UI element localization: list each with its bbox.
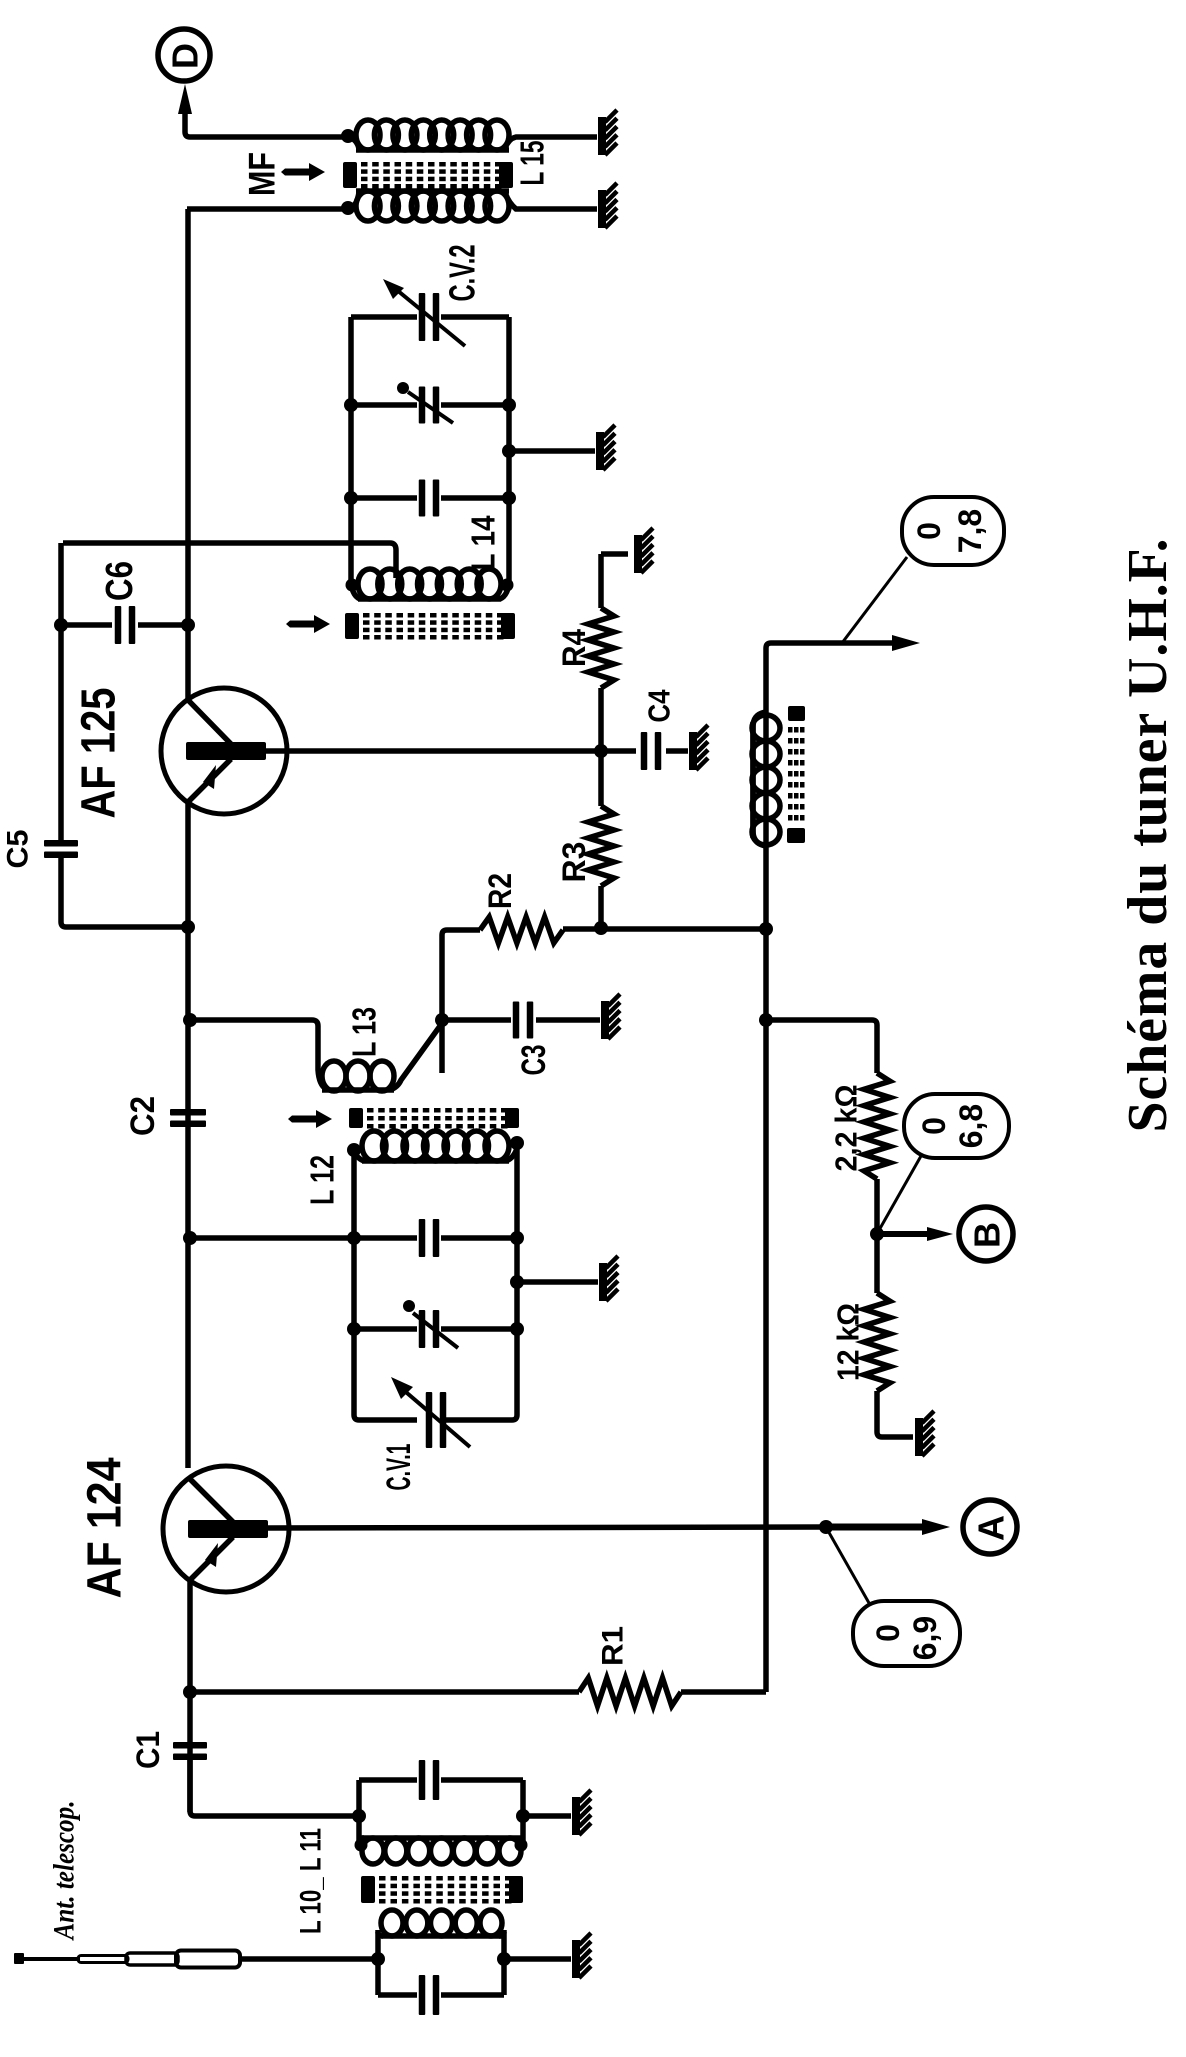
inductor L10 <box>378 1910 504 1936</box>
title <box>1117 538 1179 1133</box>
resistor R2 <box>442 917 563 1073</box>
label C.V.1 <box>380 1444 418 1491</box>
label L14 <box>465 515 502 571</box>
wire base AF124 node A line <box>268 1520 934 1534</box>
svg-text:L 15: L 15 <box>514 141 551 186</box>
transistor AF124 <box>163 1466 289 1592</box>
label C.V.2 <box>442 245 483 302</box>
label C6 <box>99 561 141 601</box>
capacitor C.V.2 <box>351 279 509 346</box>
label C2 <box>124 1096 162 1136</box>
svg-text:C2: C2 <box>124 1096 162 1136</box>
svg-text:7,8: 7,8 <box>952 509 988 553</box>
wire emitter AF124 down <box>187 1580 193 1812</box>
wire ground tap tank2 <box>510 1275 598 1289</box>
resistor 12k <box>864 1234 913 1437</box>
label R1 <box>597 1626 630 1666</box>
wire L11 right side <box>520 1780 526 1849</box>
leader 0 6,8 <box>878 1156 921 1232</box>
capacitor C3 <box>435 1002 600 1039</box>
capacitor L10 bottom <box>378 1975 504 2015</box>
inductor L13 <box>183 1013 440 1091</box>
arrowhead supply <box>892 635 920 651</box>
svg-text:AF 125: AF 125 <box>73 688 126 819</box>
bubble 0 7,8 <box>902 497 1004 565</box>
svg-text:0: 0 <box>916 1117 952 1135</box>
resistor R3 <box>588 751 614 935</box>
wire left column top <box>58 543 64 840</box>
resistor R4 <box>588 554 628 751</box>
trimmer capacitor tank2 <box>347 1300 524 1348</box>
ground <box>689 725 708 770</box>
tuning arrow L12 <box>288 1110 332 1128</box>
label C1 <box>130 1731 166 1769</box>
label R4 <box>556 629 592 667</box>
label AF125 <box>73 688 126 819</box>
rf choke <box>749 722 758 838</box>
inductor L12 <box>347 1131 524 1161</box>
svg-text:C.V.2: C.V.2 <box>442 245 483 302</box>
wire collector tap line <box>63 543 396 578</box>
inductor L15 secondary coil <box>187 191 597 221</box>
label R2 <box>482 873 518 909</box>
node B junction <box>870 1227 938 1241</box>
capacitor C6 <box>54 606 195 644</box>
ground <box>598 183 617 228</box>
transformer core L15 <box>343 162 513 189</box>
inductor L14 <box>346 569 514 599</box>
wire base AF125 <box>266 744 608 758</box>
capacitor tank1 fixed <box>344 480 516 517</box>
leader 0 6,9 <box>827 1529 869 1603</box>
svg-text:L 13: L 13 <box>346 1007 383 1057</box>
svg-text:R3: R3 <box>556 842 592 883</box>
wire L10 right side <box>497 1930 511 1995</box>
svg-text:D: D <box>165 43 206 69</box>
svg-text:C.V.1: C.V.1 <box>380 1444 418 1491</box>
label R3 <box>556 842 592 883</box>
capacitor C4 <box>601 732 688 770</box>
wire L10 left side <box>371 1930 385 1995</box>
label C5 <box>2 830 35 869</box>
label AF124 <box>79 1457 132 1598</box>
label L10 L11 <box>295 1828 328 1934</box>
bubble 0 6,8 <box>904 1094 1009 1158</box>
bubble 0 6,9 <box>853 1601 960 1666</box>
arrowhead A <box>922 1519 950 1535</box>
wire C5 return <box>61 858 195 934</box>
ground <box>572 1933 591 1978</box>
svg-text:R1: R1 <box>597 1626 630 1666</box>
transformer core L14 <box>345 613 515 640</box>
capacitor C.V.1 <box>354 1377 517 1448</box>
wire R2 rail <box>563 922 773 936</box>
svg-text:L 12: L 12 <box>304 1155 341 1205</box>
svg-text:Schéma du tuner U.H.F.: Schéma du tuner U.H.F. <box>1117 538 1179 1133</box>
wire L11 ground tap <box>516 1809 571 1823</box>
wire supply rail <box>759 643 903 1692</box>
capacitor C2 <box>170 1109 206 1127</box>
svg-text:6,8: 6,8 <box>953 1104 989 1148</box>
svg-text:C3: C3 <box>515 1045 553 1076</box>
ground <box>634 528 653 573</box>
svg-text:L 10_ L 11: L 10_ L 11 <box>295 1828 328 1934</box>
wire collector AF125 <box>185 209 191 700</box>
wire C1 to L11 <box>190 1760 366 1823</box>
node B <box>959 1207 1013 1261</box>
transformer core L10 L11 <box>361 1876 523 1904</box>
node A <box>963 1500 1017 1554</box>
svg-text:Ant. telescop.: Ant. telescop. <box>48 1801 81 1942</box>
resistor 2.2k <box>864 1073 890 1234</box>
svg-text:B: B <box>967 1222 1008 1248</box>
svg-text:A: A <box>971 1515 1012 1541</box>
label 12k <box>831 1303 866 1381</box>
label L12 <box>304 1155 341 1205</box>
svg-text:C1: C1 <box>130 1731 166 1769</box>
svg-text:R2: R2 <box>482 873 518 909</box>
label L15 <box>514 141 551 186</box>
rf choke coil <box>752 712 780 846</box>
capacitor L11 top <box>359 1760 523 1800</box>
arrowhead B <box>927 1227 953 1241</box>
label MF <box>242 152 283 196</box>
wire tank1 right side <box>506 317 512 584</box>
svg-text:C4: C4 <box>642 689 677 723</box>
wire D arrow <box>178 84 348 137</box>
label C4 <box>642 689 677 723</box>
wire L12 rung left <box>183 1231 354 1245</box>
svg-text:0: 0 <box>911 522 947 540</box>
wire divider feed <box>766 1020 877 1073</box>
svg-text:AF 124: AF 124 <box>79 1457 132 1598</box>
svg-text:C6: C6 <box>99 561 141 601</box>
ground <box>601 994 620 1039</box>
wire tank2 right side <box>514 1143 520 1415</box>
svg-text:12 kΩ: 12 kΩ <box>831 1303 866 1381</box>
wire tank1 left side <box>348 317 354 584</box>
label 2.2k <box>829 1085 864 1172</box>
tuning arrow L14 <box>286 615 330 633</box>
tuning arrow MF <box>281 163 325 181</box>
trimmer capacitor tank1 <box>344 382 516 424</box>
wire ground tap tank1 <box>502 444 595 458</box>
label C3 <box>515 1045 553 1076</box>
wire L10 ground <box>504 1956 571 1962</box>
rf choke core <box>787 706 805 843</box>
capacitor C5 <box>44 840 78 858</box>
capacitor C1 <box>173 1742 207 1760</box>
svg-text:2,2 kΩ: 2,2 kΩ <box>829 1085 864 1172</box>
svg-text:6,9: 6,9 <box>907 1616 943 1660</box>
inductor L15 primary coil <box>341 120 597 150</box>
label L13 <box>346 1007 383 1057</box>
ground <box>915 1411 934 1456</box>
label antenna <box>48 1801 81 1942</box>
wire tank2 left side <box>351 1150 357 1415</box>
leader 0 7,8 <box>842 557 907 643</box>
ground <box>599 1256 618 1301</box>
ground <box>572 1790 591 1835</box>
svg-text:R4: R4 <box>556 629 592 667</box>
transistor AF125 <box>161 688 287 814</box>
ground <box>598 110 617 155</box>
svg-text:0: 0 <box>870 1624 906 1642</box>
capacitor tank2 fixed <box>347 1219 524 1257</box>
wire L11 left side <box>356 1780 362 1849</box>
node D <box>158 29 210 81</box>
svg-text:L 14: L 14 <box>465 515 502 571</box>
inductor L11 <box>355 1838 528 1864</box>
svg-text:MF: MF <box>242 152 283 196</box>
transformer core L12 <box>349 1108 519 1129</box>
svg-text:C5: C5 <box>2 830 35 869</box>
wire emitter AF125 down <box>185 802 191 1468</box>
ground <box>596 425 615 470</box>
resistor R1 <box>183 1678 766 1706</box>
antenna telescopic <box>14 1951 378 1968</box>
